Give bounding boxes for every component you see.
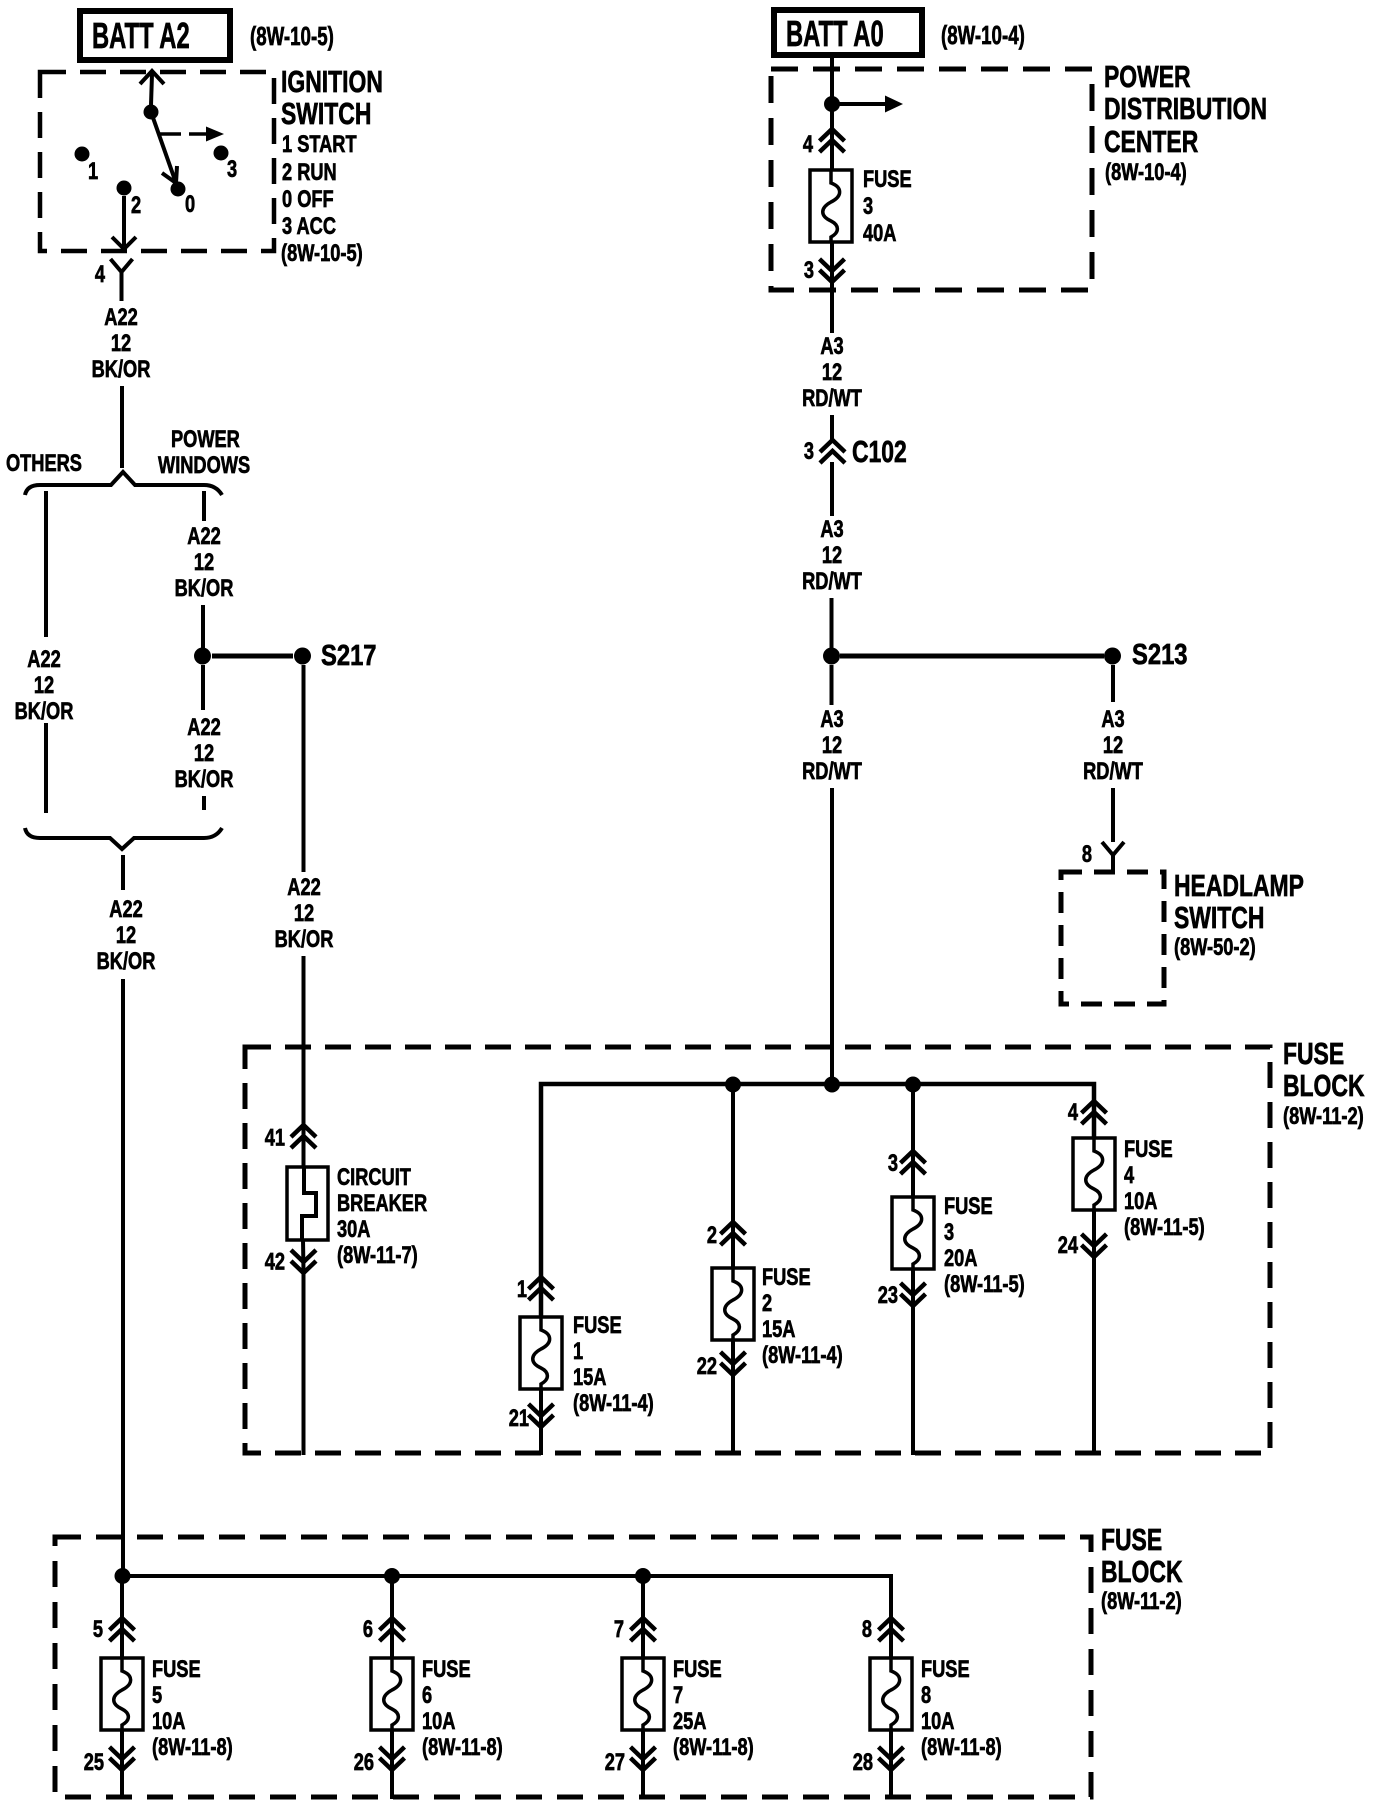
connector C102 [804,434,907,469]
svg-text:(8W-10-4): (8W-10-4) [941,20,1025,50]
wire bus to pin 3 [911,1084,915,1199]
svg-text:6: 6 [363,1616,373,1643]
long wire A22 down to lower fuse block [121,979,125,1572]
wire fuse5 to pin 25 [120,1730,124,1768]
wire PDC exit [830,280,834,333]
splice junction dot [194,648,211,665]
wire pin24 to block edge [1092,1255,1096,1455]
bus junction dot fuse 6 [384,1568,400,1584]
svg-text:FUSE: FUSE [152,1656,201,1683]
fuse 5 10A [101,1656,233,1761]
svg-text:12: 12 [194,740,214,767]
wire pin22 to block edge [731,1373,735,1455]
svg-text:10A: 10A [921,1708,954,1735]
long wire A3 to fuse block bus [830,788,834,1084]
pin 27 in-line connector [605,1747,656,1776]
svg-text:12: 12 [1103,732,1123,759]
svg-text:10A: 10A [152,1708,185,1735]
svg-text:BK/OR: BK/OR [175,766,234,793]
svg-text:40A: 40A [863,220,896,247]
svg-text:12: 12 [116,922,136,949]
circuit breaker 30A [287,1164,427,1269]
wire BATT A2 to ignition switch with up arrow [140,71,164,105]
svg-text:(8W-10-5): (8W-10-5) [250,21,334,51]
svg-text:BREAKER: BREAKER [337,1190,427,1217]
bus junction dot fuse 3 [905,1077,921,1093]
svg-text:CIRCUIT: CIRCUIT [337,1164,411,1191]
svg-text:(8W-11-4): (8W-11-4) [573,1390,654,1417]
svg-text:12: 12 [111,330,131,357]
svg-text:25: 25 [84,1749,104,1776]
wire fuse6 to pin 26 [390,1730,394,1768]
pin 25 in-line connector [84,1747,135,1776]
svg-text:A22: A22 [27,646,60,673]
svg-text:10A: 10A [1124,1188,1157,1215]
svg-text:CENTER: CENTER [1104,124,1199,159]
svg-text:4: 4 [95,261,105,288]
svg-text:FUSE: FUSE [1101,1522,1162,1557]
fuse 6 10A [371,1656,503,1761]
svg-text:27: 27 [605,1749,625,1776]
pin 2 in-line connector (fuse 2) [707,1222,746,1249]
svg-text:12: 12 [294,900,314,927]
svg-text:20A: 20A [944,1245,977,1272]
ignition switch wiper arm with arrowhead [151,112,177,183]
svg-text:4: 4 [803,131,813,158]
svg-text:(8W-11-8): (8W-11-8) [152,1734,233,1761]
wire to brace [120,386,124,468]
switch position contact 0 [171,182,196,218]
wire bus to pin 7 [641,1576,645,1660]
svg-text:7: 7 [673,1682,683,1709]
svg-text:(8W-11-4): (8W-11-4) [762,1342,843,1369]
svg-text:3: 3 [804,257,814,284]
svg-text:12: 12 [34,672,54,699]
label POWER WINDOWS [158,426,250,479]
bus junction dot fuse 7 [635,1568,651,1584]
svg-text:BK/OR: BK/OR [97,948,156,975]
wire pin42 to block edge [302,1271,306,1455]
svg-text:A22: A22 [187,714,220,741]
wire pin21 to block edge [539,1425,543,1455]
branch arrow to other circuits [832,96,903,113]
svg-text:A3: A3 [820,706,843,733]
wire to lower brace [202,796,206,810]
svg-text:WINDOWS: WINDOWS [158,452,250,479]
svg-text:C102: C102 [852,434,907,469]
svg-text:(8W-10-4): (8W-10-4) [1105,159,1187,186]
wire fuse4 to pin 24 [1092,1210,1096,1255]
svg-text:12: 12 [194,549,214,576]
svg-text:2 RUN: 2 RUN [282,159,337,186]
svg-text:FUSE: FUSE [1124,1136,1173,1163]
wire into splice S213 [830,598,834,650]
connector box BATT A2 [80,11,230,60]
svg-text:3 ACC: 3 ACC [282,213,336,240]
pin 22 in-line connector [697,1352,746,1380]
svg-text:POWER: POWER [171,426,240,453]
svg-text:3: 3 [944,1219,954,1246]
wire below lower brace [121,855,125,890]
ignition switch label text [281,64,383,267]
svg-text:FUSE: FUSE [573,1312,622,1339]
power distribution center label text [1104,59,1267,186]
svg-text:12: 12 [822,542,842,569]
svg-text:5: 5 [93,1616,103,1643]
svg-text:3: 3 [804,438,814,465]
svg-text:(8W-11-8): (8W-11-8) [921,1734,1002,1761]
svg-text:2: 2 [707,1222,717,1249]
svg-text:(8W-11-2): (8W-11-2) [1101,1588,1182,1615]
svg-text:2: 2 [762,1290,772,1317]
headlamp switch dashed box [1061,872,1164,1004]
wire label A22 12 BK/OR (power windows branch) [175,523,234,602]
svg-text:A22: A22 [187,523,220,550]
svg-text:(8W-11-2): (8W-11-2) [1283,1103,1364,1130]
svg-text:8: 8 [921,1682,931,1709]
wire bus to pin 5 [120,1576,124,1660]
svg-text:41: 41 [265,1124,285,1151]
svg-text:A3: A3 [1101,706,1124,733]
svg-text:26: 26 [354,1749,374,1776]
svg-text:(8W-11-8): (8W-11-8) [422,1734,503,1761]
splice junction dot (A3) [823,648,840,665]
pin 3 in-line connector (fuse 3) [888,1150,926,1177]
pin 4 connector of ignition switch [95,259,133,288]
svg-text:RD/WT: RD/WT [802,758,862,785]
svg-text:FUSE: FUSE [762,1264,811,1291]
svg-text:SWITCH: SWITCH [1174,900,1264,935]
svg-text:15A: 15A [762,1316,795,1343]
wire below C102 [830,462,834,516]
svg-text:SWITCH: SWITCH [281,96,371,131]
wire pin25 to block edge [120,1768,124,1799]
wire bus to pin 6 [390,1576,394,1660]
switch position contact 2 [117,181,142,219]
pin 8 in-line connector (fuse 8) [862,1616,904,1643]
svg-text:BK/OR: BK/OR [92,356,151,383]
wire dot to pin 4 [830,104,834,172]
svg-text:1 START: 1 START [282,131,357,158]
pin 42 in-line connector [265,1248,316,1275]
wire pin23 to block edge [911,1304,915,1455]
svg-text:(8W-11-7): (8W-11-7) [337,1242,418,1269]
wire to connector C102 [830,415,834,441]
wire below splice junction [201,665,205,710]
wire label A3 12 RD/WT (S213 branch) [1083,706,1143,785]
switch position contact 1 [75,147,99,185]
svg-text:A3: A3 [820,516,843,543]
fuse block label text (lower) [1101,1522,1183,1615]
svg-text:BK/OR: BK/OR [175,575,234,602]
wire label A22 12 BK/OR (left branch) [15,646,74,725]
wire fuse3 to pin 23 [911,1269,915,1304]
junction dot in PDC [824,96,840,112]
wire pin27 to block edge [641,1768,645,1799]
fuse 1 15A [520,1312,654,1417]
wire fuse to pin 3 [830,242,834,290]
fuse 2 15A [712,1264,843,1369]
pin 23 in-line connector [878,1282,926,1309]
svg-text:0: 0 [185,191,195,218]
wire contact 2 to pin 4 with down arrow [112,196,136,249]
svg-text:RD/WT: RD/WT [802,385,862,412]
svg-text:A22: A22 [109,896,142,923]
fuse block dashed box (upper) [245,1047,1270,1453]
svg-text:24: 24 [1058,1232,1078,1259]
svg-text:FUSE: FUSE [863,166,912,193]
pin 6 in-line connector (fuse 6) [363,1616,405,1643]
svg-text:OTHERS: OTHERS [6,450,82,477]
svg-text:6: 6 [422,1682,432,1709]
svg-text:BATT A0: BATT A0 [786,14,884,54]
svg-text:BLOCK: BLOCK [1101,1554,1183,1589]
pin 21 in-line connector [509,1404,554,1432]
svg-text:POWER: POWER [1104,59,1191,94]
wire into splice S217 [201,605,205,650]
svg-text:3: 3 [863,193,873,220]
connector box BATT A0 [774,10,922,55]
wire left branch upper [44,491,48,637]
svg-text:(8W-11-5): (8W-11-5) [1124,1214,1205,1241]
svg-text:A22: A22 [287,874,320,901]
pin 28 in-line connector [853,1747,904,1776]
upper brace splitting wire [25,472,222,495]
svg-text:S213: S213 [1132,638,1187,671]
fuse block dashed box (lower) [55,1537,1091,1797]
wire left branch lower [44,723,48,813]
ignition switch pivot node [144,105,159,120]
svg-text:BK/OR: BK/OR [15,698,74,725]
svg-text:BLOCK: BLOCK [1283,1068,1365,1103]
svg-text:28: 28 [853,1749,873,1776]
splice S213 dot [1104,648,1121,665]
svg-text:HEADLAMP: HEADLAMP [1174,868,1304,903]
wire S217 branch to circuit breaker [302,956,306,1168]
wire below A3 splice [830,665,834,705]
svg-text:RD/WT: RD/WT [802,568,862,595]
fuse block label text (upper) [1283,1036,1365,1130]
svg-text:15A: 15A [573,1364,606,1391]
svg-text:30A: 30A [337,1216,370,1243]
wire fuse1 to pin 21 [539,1389,543,1425]
svg-text:0 OFF: 0 OFF [282,186,334,213]
wire pin26 to block edge [390,1768,394,1799]
svg-text:3: 3 [227,156,237,183]
wire fuse2 to pin 22 [731,1340,735,1373]
fuse block bus wire (lower) [122,1576,891,1660]
fuse block bus wire (upper) [541,1084,1094,1319]
svg-text:(8W-10-5): (8W-10-5) [281,240,363,267]
ignition switch dashed box [40,72,274,251]
pin 1 in-line connector (fuse 1) [517,1276,554,1303]
fuse 3 40A (PDC) [810,166,912,247]
wire label A22 12 BK/OR (below splice) [175,714,234,793]
pin 3 in-line connector (PDC) [804,257,845,284]
svg-text:12: 12 [822,732,842,759]
rotation direction dashed arrow [159,127,224,142]
svg-text:BK/OR: BK/OR [275,926,334,953]
wire circuit breaker to pin 42 [301,1240,306,1271]
svg-text:25A: 25A [673,1708,706,1735]
switch position contact 3 [214,146,238,183]
bus junction dot fuse 2 [725,1077,741,1093]
svg-text:1: 1 [573,1338,583,1365]
wire label A22 12 BK/OR (S217 branch) [275,874,334,953]
pin 8 connector of headlamp switch [1082,841,1124,870]
headlamp switch label text [1174,868,1304,961]
svg-text:3: 3 [888,1150,898,1177]
fuse 8 10A [870,1656,1002,1761]
pin 4 in-line connector (PDC) [803,129,845,158]
svg-text:(8W-11-5): (8W-11-5) [944,1271,1025,1298]
splice S217 dot [294,648,311,665]
bus junction dot feed (lower block) [115,1568,131,1584]
svg-text:(8W-11-8): (8W-11-8) [673,1734,754,1761]
splice link wire S213 [840,654,1104,659]
svg-text:BATT A2: BATT A2 [92,16,190,56]
fuse 3 20A [892,1193,1025,1298]
pin 4 in-line connector (fuse 4) [1068,1099,1107,1126]
fuse 4 10A [1073,1136,1205,1241]
svg-text:8: 8 [1082,841,1092,868]
wire below S213 [1111,665,1115,702]
pin 24 in-line connector [1058,1232,1107,1259]
svg-text:12: 12 [822,359,842,386]
svg-text:(8W-50-2): (8W-50-2) [1174,934,1256,961]
svg-text:2: 2 [131,192,141,219]
svg-text:A3: A3 [820,333,843,360]
pin 26 in-line connector [354,1747,405,1776]
svg-text:5: 5 [152,1682,162,1709]
wire bus to pin 2 [731,1084,735,1270]
bus junction dot A3 feed [824,1077,840,1093]
wire fuse8 to pin 28 [889,1730,893,1768]
svg-text:A22: A22 [104,304,137,331]
svg-text:DISTRIBUTION: DISTRIBUTION [1104,91,1267,126]
splice link wire [212,654,293,659]
svg-text:FUSE: FUSE [1283,1036,1344,1071]
wire label A3 12 RD/WT (below PDC) [802,333,862,412]
pin 7 in-line connector (fuse 7) [614,1616,656,1643]
svg-text:1: 1 [517,1276,527,1303]
wire S217 down [302,665,306,872]
pin 41 in-line connector (circuit breaker) [265,1124,316,1151]
svg-text:1: 1 [88,158,98,185]
wire label A22 12 BK/OR (below ignition) [92,304,151,383]
pin 5 in-line connector (fuse 5) [93,1616,135,1643]
svg-text:4: 4 [1124,1162,1134,1189]
power distribution center dashed box [771,69,1092,290]
lower brace merging wires [25,828,222,849]
svg-text:FUSE: FUSE [673,1656,722,1683]
svg-text:10A: 10A [422,1708,455,1735]
wire BATT A0 down [830,58,834,100]
svg-text:4: 4 [1068,1099,1078,1126]
svg-text:RD/WT: RD/WT [1083,758,1143,785]
svg-text:7: 7 [614,1616,624,1643]
svg-text:S217: S217 [321,639,376,672]
wire to headlamp switch [1111,788,1115,842]
wire pin4 down [120,287,124,301]
svg-text:22: 22 [697,1353,717,1380]
wire label A3 12 RD/WT (to fuse block) [802,706,862,785]
wire label A22 12 BK/OR (merged) [97,896,156,975]
wire right branch upper [202,491,206,521]
svg-text:21: 21 [509,1405,529,1432]
svg-text:8: 8 [862,1616,872,1643]
wire pin28 to block edge [889,1768,893,1799]
svg-text:IGNITION: IGNITION [281,64,383,99]
svg-text:FUSE: FUSE [422,1656,471,1683]
svg-text:FUSE: FUSE [921,1656,970,1683]
wire fuse7 to pin 27 [641,1730,645,1768]
fuse 7 25A [622,1656,754,1761]
svg-text:23: 23 [878,1282,898,1309]
svg-text:42: 42 [265,1248,285,1275]
svg-text:FUSE: FUSE [944,1193,993,1220]
wire label A3 12 RD/WT (below C102) [802,516,862,595]
